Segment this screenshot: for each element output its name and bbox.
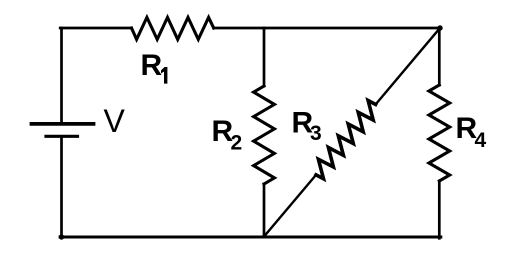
label R4 [456,112,487,152]
wire R2 branch lower [263,184,266,237]
svg-text:V: V [104,103,126,139]
svg-text:2: 2 [231,132,243,155]
wire R3 diagonal upper segment [376,28,440,104]
wire top right segment [264,27,441,30]
wire R4 branch lower [438,181,441,238]
resistor R4 [429,85,450,181]
node top-right junction [437,25,442,30]
wire R4 branch upper [438,28,441,85]
wire left vertical lower (battery to bottom rail) [60,136,63,237]
node bottom-left junction [59,234,64,239]
wire top middle segment [214,27,264,30]
resistor R1 [132,17,214,39]
resistor R2 [254,86,275,184]
wire R3 diagonal lower segment [264,175,316,237]
wire bottom rail [60,236,441,239]
resistor R3 [316,101,376,179]
wire left vertical upper (to battery) [60,28,63,123]
wire R2 branch upper [263,28,266,86]
battery V short plate [46,135,78,138]
battery V long plate [32,122,94,126]
svg-text:3: 3 [310,122,322,145]
label R3 [292,106,322,145]
svg-text:4: 4 [475,129,487,152]
wire top-left horizontal segment [60,27,131,30]
svg-text:R: R [141,49,163,82]
node bottom R2/R3 junction [262,235,266,239]
label R2 [212,115,243,155]
label R1 [141,49,168,84]
